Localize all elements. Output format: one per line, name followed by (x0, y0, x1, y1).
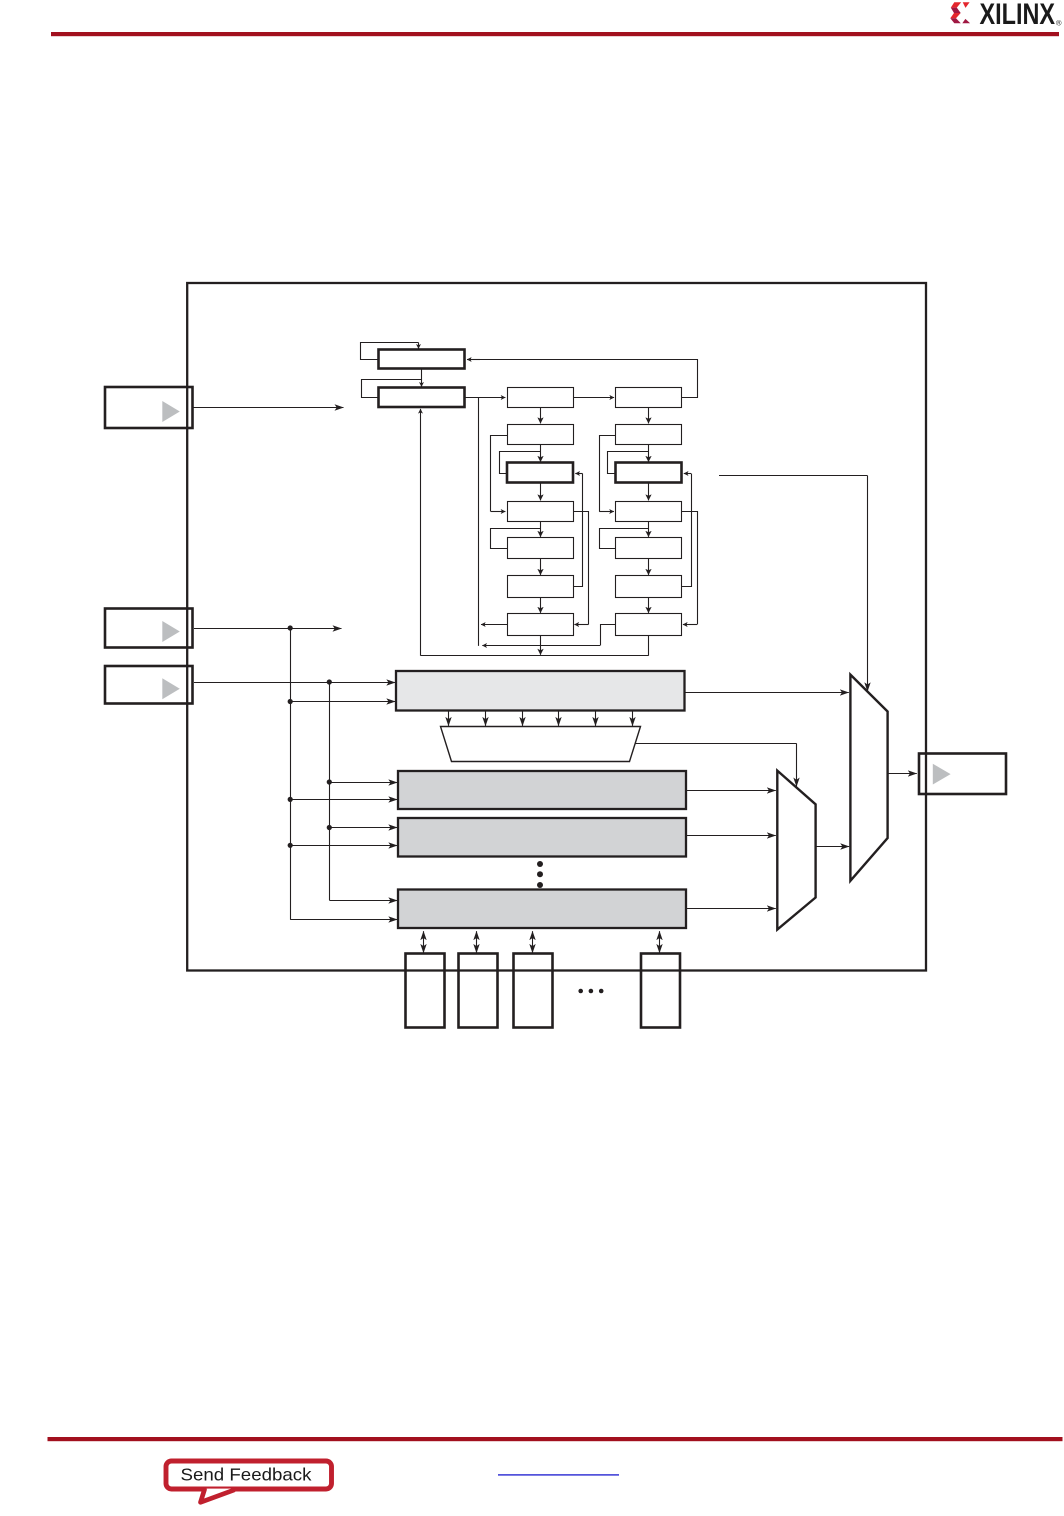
svg-text:Send Feedback: Send Feedback (181, 1465, 312, 1485)
svg-text:XILINX: XILINX (980, 0, 1056, 31)
svg-text:®: ® (1056, 19, 1062, 28)
